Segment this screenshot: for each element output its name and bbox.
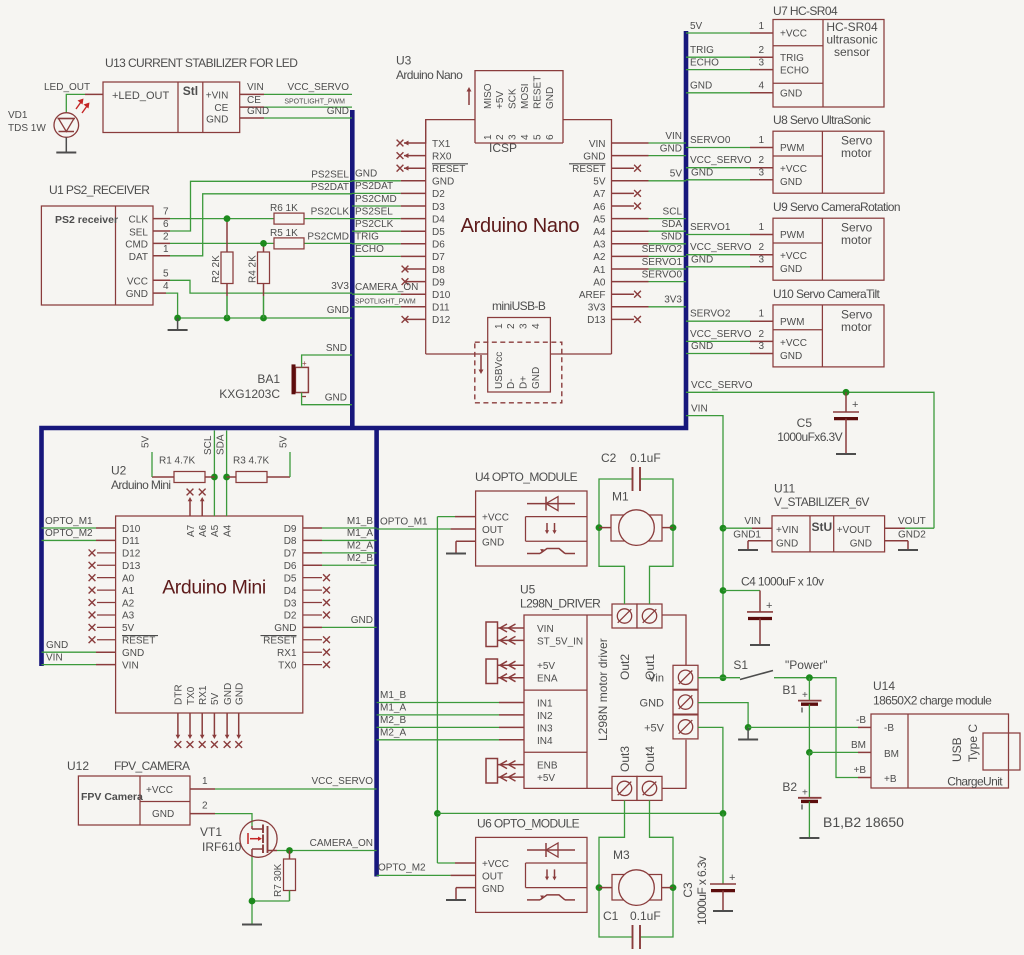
- svg-text:M1: M1: [612, 490, 629, 504]
- svg-text:3: 3: [758, 57, 764, 68]
- U3 pin names right: [569, 139, 606, 326]
- svg-text:D9: D9: [432, 277, 445, 288]
- svg-text:U9 Servo CameraRotation: U9 Servo CameraRotation: [773, 200, 900, 214]
- wire PS2SEL from U1 SEL pin6: [153, 170, 352, 232]
- svg-text:V_STABILIZER_6V: V_STABILIZER_6V: [774, 495, 869, 509]
- svg-text:4: 4: [531, 323, 542, 329]
- svg-text:1: 1: [202, 776, 208, 787]
- wire 5V stub right: [279, 435, 291, 477]
- svg-text:PS2CLK: PS2CLK: [355, 219, 394, 230]
- svg-text:SCL: SCL: [663, 206, 683, 217]
- svg-text:R4 2K: R4 2K: [248, 255, 259, 283]
- svg-text:StU: StU: [811, 520, 832, 534]
- U5 pin names: [537, 624, 583, 784]
- svg-text:+B: +B: [853, 765, 866, 776]
- svg-text:GND: GND: [691, 167, 713, 178]
- svg-text:M2_B: M2_B: [380, 715, 406, 726]
- U4 diode symbol: [527, 497, 575, 511]
- svg-text:6: 6: [163, 219, 169, 230]
- svg-text:U13 CURRENT STABILIZER FOR LE: U13 CURRENT STABILIZER FOR LED: [105, 56, 298, 70]
- IC U14 title: [873, 679, 992, 708]
- svg-text:D8: D8: [432, 265, 445, 276]
- svg-text:+: +: [766, 600, 772, 612]
- wire LED_OUT: [44, 82, 103, 113]
- wire OPTO_M1 to U2 D10: [42, 516, 116, 528]
- svg-text:+: +: [802, 690, 808, 701]
- wire M2_A from U2 D7: [303, 541, 377, 553]
- wire 5V stub left: [141, 435, 153, 477]
- svg-text:PS2 receiver: PS2 receiver: [55, 214, 118, 226]
- svg-text:IN1: IN1: [537, 699, 553, 710]
- svg-text:Vin: Vin: [648, 673, 664, 685]
- terminal +5V: [644, 715, 698, 739]
- ground below U1: [168, 318, 188, 330]
- IC U10 Servo motor: [773, 305, 884, 367]
- IC U11 title: [774, 482, 869, 510]
- svg-text:5V: 5V: [593, 177, 606, 188]
- IC U6 title: [477, 816, 580, 830]
- IC U14 18650X2 charge module: [871, 714, 1009, 789]
- svg-text:B1,B2 18650: B1,B2 18650: [823, 814, 904, 830]
- svg-text:BM: BM: [851, 740, 866, 751]
- U2 pin names left: [122, 524, 158, 672]
- wire GND from U3 right: [612, 143, 687, 155]
- svg-text:GND: GND: [46, 640, 68, 651]
- U3 unconnected pin RESET right: [612, 165, 641, 172]
- svg-text:D2: D2: [284, 611, 297, 622]
- svg-text:1000uF x 6.3v: 1000uF x 6.3v: [695, 856, 709, 925]
- svg-text:MOSI: MOSI: [520, 83, 531, 109]
- wire SERVO2 from U3: [612, 244, 687, 256]
- svg-text:C1: C1: [603, 909, 619, 923]
- svg-text:RESET: RESET: [122, 636, 155, 647]
- svg-text:D11: D11: [122, 536, 140, 547]
- capacitor C4: [723, 575, 824, 645]
- capacitor C1: [603, 909, 661, 949]
- LED VD1: [8, 99, 90, 138]
- svg-text:4: 4: [758, 81, 764, 92]
- svg-text:ST_5V_IN: ST_5V_IN: [537, 636, 583, 647]
- IC U4 OPTO_MODULE: [476, 491, 587, 566]
- svg-text:SERVO0: SERVO0: [690, 135, 731, 146]
- svg-text:M3: M3: [613, 848, 630, 862]
- resistor R7 30K: [273, 851, 296, 902]
- resistor R3 4.7K: [227, 456, 290, 483]
- svg-text:GND: GND: [126, 289, 148, 300]
- svg-text:D3: D3: [284, 598, 297, 609]
- svg-text:SERVO0: SERVO0: [642, 269, 683, 280]
- ground U6 GND pin: [446, 888, 476, 900]
- svg-text:+VCC: +VCC: [780, 338, 807, 349]
- svg-text:ICSP: ICSP: [489, 141, 517, 155]
- svg-text:2: 2: [758, 155, 764, 166]
- svg-text:3: 3: [758, 167, 764, 178]
- ground GND1 of U11: [733, 530, 772, 551]
- svg-text:VIN: VIN: [589, 139, 606, 150]
- U2 unconnected pins bottom: [175, 713, 243, 748]
- svg-text:C4 1000uF x 10v: C4 1000uF x 10v: [741, 575, 824, 589]
- svg-text:CE: CE: [247, 95, 261, 106]
- svg-text:M2_A: M2_A: [347, 541, 373, 552]
- svg-text:USBVcc: USBVcc: [494, 352, 505, 389]
- wire SND from BA1: [302, 343, 352, 367]
- svg-text:SND: SND: [326, 343, 347, 354]
- IC U2 Arduino Mini body: [116, 516, 303, 713]
- wire SPOTLIGHT_PWM from U13 CE: [240, 95, 352, 107]
- svg-text:Out2: Out2: [618, 654, 632, 680]
- wire VCC_SERVO from U12 pin1: [190, 776, 377, 789]
- ground below VD1: [56, 137, 76, 152]
- svg-text:A4: A4: [222, 524, 233, 537]
- svg-text:D12: D12: [122, 549, 141, 560]
- U3 unconnected pin AREF: [612, 291, 641, 298]
- svg-text:SDA: SDA: [661, 219, 682, 230]
- U2 unconnected pins top A7 A6: [187, 489, 206, 516]
- svg-text:VOUT: VOUT: [898, 516, 926, 527]
- svg-text:SPOTLIGHT_PWM: SPOTLIGHT_PWM: [284, 99, 345, 106]
- svg-text:USB: USB: [950, 737, 964, 762]
- svg-text:U4 OPTO_MODULE: U4 OPTO_MODULE: [475, 470, 578, 484]
- svg-text:R1 4.7K: R1 4.7K: [159, 456, 195, 467]
- wire +B stub: [853, 765, 871, 778]
- svg-text:FPV_CAMERA: FPV_CAMERA: [114, 759, 190, 773]
- wire SERVO1 from U3: [612, 257, 687, 269]
- svg-text:OPTO_M2: OPTO_M2: [378, 863, 426, 874]
- svg-text:D+: D+: [519, 376, 530, 389]
- svg-text:A3: A3: [593, 240, 606, 251]
- svg-text:RESET: RESET: [263, 636, 296, 647]
- svg-text:5V: 5V: [141, 435, 152, 448]
- bus frame around Arduino Nano: [42, 31, 687, 666]
- wire M1_A from U2 D8: [303, 528, 377, 540]
- svg-text:+5V: +5V: [537, 773, 555, 784]
- svg-text:GND: GND: [325, 393, 347, 404]
- svg-text:+LED_OUT: +LED_OUT: [112, 90, 169, 102]
- wire ECHO to U3: [352, 244, 426, 256]
- svg-text:2: 2: [758, 242, 764, 253]
- miniUSB-B connector U3: [488, 299, 551, 392]
- svg-text:+: +: [802, 788, 808, 799]
- U2 unconnected pins right D5-D2: [303, 574, 330, 618]
- svg-text:DTR: DTR: [174, 684, 185, 705]
- wire Power node: [774, 674, 858, 777]
- svg-text:+VCC: +VCC: [482, 859, 509, 870]
- svg-text:5V: 5V: [279, 435, 290, 448]
- svg-text:VT1: VT1: [200, 825, 222, 839]
- svg-text:ECHO: ECHO: [690, 57, 719, 68]
- svg-text:VIN: VIN: [46, 652, 63, 663]
- svg-text:3V3: 3V3: [664, 295, 682, 306]
- wire GND to U10 pin3: [686, 341, 773, 354]
- svg-text:SPOTLIGHT_PWM: SPOTLIGHT_PWM: [355, 299, 416, 306]
- wire VCC_SERVO from U13 VIN: [240, 82, 352, 94]
- svg-text:GND: GND: [531, 367, 542, 389]
- svg-text:VCC_SERVO: VCC_SERVO: [691, 380, 753, 391]
- svg-text:PS2CMD: PS2CMD: [355, 194, 397, 205]
- svg-text:motor: motor: [841, 146, 872, 160]
- U4 phototransistor symbol: [527, 549, 575, 554]
- svg-text:6: 6: [545, 134, 556, 140]
- svg-text:M2_A: M2_A: [380, 727, 406, 738]
- svg-text:D6: D6: [284, 561, 297, 572]
- svg-text:VIN: VIN: [744, 516, 761, 527]
- wire 3V3 from U1 VCC pin5: [153, 280, 352, 293]
- svg-text:A7: A7: [593, 189, 606, 200]
- svg-text:GND: GND: [235, 683, 246, 705]
- svg-text:GND: GND: [482, 538, 504, 549]
- svg-text:BM: BM: [884, 749, 899, 760]
- wire PS2CLK to U3: [352, 219, 426, 231]
- svg-text:M1_B: M1_B: [380, 690, 406, 701]
- svg-text:U14: U14: [873, 679, 895, 693]
- wire GND from U13: [240, 106, 352, 118]
- U3 unconnected pin D13: [612, 316, 641, 323]
- switch S1: [733, 658, 827, 680]
- ground below B2: [799, 837, 819, 839]
- svg-text:SDA: SDA: [215, 434, 226, 455]
- U3 unconnected pins TX1 RX0 RESET: [397, 140, 426, 172]
- svg-text:IRF610: IRF610: [202, 840, 242, 854]
- svg-text:PS2CLK: PS2CLK: [311, 207, 350, 218]
- svg-text:B1: B1: [782, 683, 797, 697]
- ground below VT1: [242, 924, 262, 926]
- svg-text:GND: GND: [355, 169, 377, 180]
- svg-text:CE: CE: [214, 103, 228, 114]
- connector plug VIN/ST_5V_IN: [486, 622, 524, 647]
- wire GND from driver terminal: [698, 703, 751, 731]
- battery B2: [782, 752, 821, 837]
- svg-text:A3: A3: [122, 611, 135, 622]
- wire GND rail: [174, 305, 352, 321]
- svg-text:motor: motor: [841, 320, 872, 334]
- svg-text:1: 1: [758, 135, 764, 146]
- svg-text:C3: C3: [681, 882, 695, 898]
- svg-text:SERVO2: SERVO2: [642, 244, 683, 255]
- svg-text:L298N_DRIVER: L298N_DRIVER: [520, 597, 601, 611]
- resistor R2 2K: [211, 215, 233, 318]
- svg-text:A1: A1: [593, 265, 606, 276]
- wire SDA from U3: [612, 219, 687, 231]
- svg-text:motor: motor: [841, 233, 872, 247]
- wire motor M3 loop: [596, 800, 677, 937]
- svg-text:DAT: DAT: [129, 252, 148, 263]
- svg-text:GND: GND: [327, 305, 349, 316]
- svg-text:GND: GND: [640, 698, 665, 710]
- IC U5 L298N_DRIVER body: [524, 615, 686, 788]
- svg-text:+VCC: +VCC: [780, 164, 807, 175]
- bus Arduino Mini right vertical: [374, 428, 379, 877]
- wire TRIG to U3: [352, 232, 426, 244]
- svg-text:A0: A0: [593, 277, 606, 288]
- svg-text:Out3: Out3: [618, 746, 632, 772]
- resistor R1 4.7K: [152, 456, 214, 483]
- svg-text:C5: C5: [797, 416, 813, 430]
- wire M1_A to U5 IN2: [377, 702, 524, 715]
- svg-text:GND: GND: [482, 884, 504, 895]
- svg-text:VIN: VIN: [691, 404, 708, 415]
- wire GND to U9 pin3: [686, 254, 773, 267]
- svg-text:TRIG: TRIG: [690, 45, 714, 56]
- svg-text:U6 OPTO_MODULE: U6 OPTO_MODULE: [477, 816, 580, 830]
- motor M1: [599, 490, 673, 546]
- connector plug +5V/ENA: [486, 659, 524, 684]
- svg-text:+VOUT: +VOUT: [837, 525, 871, 536]
- svg-text:OPTO_M1: OPTO_M1: [380, 517, 428, 528]
- svg-text:2: 2: [495, 134, 506, 140]
- wire SPOTLIGHT_PWM to U3 D11: [352, 299, 426, 307]
- svg-text:GND: GND: [690, 81, 712, 92]
- svg-text:GND: GND: [691, 254, 713, 265]
- svg-text:PS2SEL: PS2SEL: [311, 170, 349, 181]
- svg-text:3: 3: [758, 341, 764, 352]
- svg-text:VCC_SERVO: VCC_SERVO: [690, 242, 752, 253]
- svg-text:5V: 5V: [670, 169, 683, 180]
- svg-text:7: 7: [163, 207, 169, 218]
- svg-text:U10 Servo CameraTilt: U10 Servo CameraTilt: [773, 287, 881, 301]
- svg-text:GND: GND: [223, 683, 234, 705]
- svg-text:A7: A7: [186, 524, 197, 537]
- svg-text:+5V: +5V: [537, 661, 555, 672]
- wire SERVO0 to U8 pin1: [686, 135, 773, 148]
- svg-text:MISO: MISO: [483, 83, 494, 109]
- IC U7 title: [773, 4, 838, 18]
- wire SDA: [215, 431, 230, 517]
- svg-text:A1: A1: [122, 586, 135, 597]
- svg-text:SND: SND: [661, 232, 682, 243]
- svg-text:VCC: VCC: [127, 277, 148, 288]
- resistor R5 1K: [270, 228, 304, 249]
- wire M2_A to U5 IN4: [377, 727, 524, 740]
- svg-text:GND: GND: [122, 648, 144, 659]
- USB Type C connector: [983, 733, 1020, 770]
- svg-text:GND: GND: [152, 809, 174, 820]
- svg-text:PS2SEL: PS2SEL: [355, 206, 393, 217]
- wire CAMERA_ON from VT1: [277, 838, 377, 854]
- wire GND from BA1: [302, 393, 352, 405]
- wire SERVO0 from U3: [612, 269, 687, 281]
- IC U9 Servo motor: [773, 218, 884, 280]
- IC U4 title: [475, 470, 578, 484]
- svg-text:0.1uF: 0.1uF: [630, 451, 661, 465]
- U2 unconnected pins right RESET RX1 TX0: [303, 636, 330, 668]
- svg-text:RESET: RESET: [572, 164, 605, 175]
- svg-text:C2: C2: [601, 451, 617, 465]
- wire VIN rail: [686, 404, 726, 682]
- buzzer BA1 KXG1203C: [219, 359, 308, 401]
- svg-text:GND: GND: [850, 539, 872, 550]
- svg-text:A6: A6: [198, 524, 209, 537]
- svg-text:CAMERA_ON: CAMERA_ON: [355, 282, 418, 293]
- svg-text:PWM: PWM: [780, 317, 804, 328]
- svg-text:U5: U5: [520, 583, 536, 597]
- svg-text:+VIN: +VIN: [776, 525, 799, 536]
- svg-text:D5: D5: [284, 573, 297, 584]
- svg-text:OUT: OUT: [482, 871, 503, 882]
- svg-text:GND: GND: [691, 341, 713, 352]
- svg-text:2: 2: [506, 323, 517, 329]
- svg-text:U1 PS2_RECEIVER: U1 PS2_RECEIVER: [49, 183, 150, 197]
- wire OPTO_M2 to U2 D11: [42, 528, 116, 540]
- U6 diode symbol: [527, 843, 575, 857]
- svg-text:OPTO_M1: OPTO_M1: [45, 516, 93, 527]
- wire GND to U2: [42, 640, 116, 652]
- svg-text:5: 5: [532, 134, 543, 140]
- IC U13 CURRENT STABILIZER FOR LED: [103, 82, 240, 133]
- svg-text:KXG1203C: KXG1203C: [219, 387, 280, 401]
- wire GND to U8 pin3: [686, 167, 773, 180]
- terminal Out2: [612, 604, 637, 680]
- svg-text:VIN: VIN: [122, 660, 139, 671]
- wire TRIG to U7 pin2: [686, 45, 773, 57]
- wire SERVO1 to U9 pin1: [686, 222, 773, 235]
- svg-text:D13: D13: [122, 561, 141, 572]
- svg-text:RESET: RESET: [432, 164, 465, 175]
- wire PS2CMD from U1 CMD pin2: [153, 231, 352, 243]
- svg-text:VCC_SERVO: VCC_SERVO: [287, 82, 349, 93]
- U2 unconnected pins left: [89, 549, 116, 643]
- terminal Out4: [637, 746, 662, 801]
- svg-text:+VCC: +VCC: [780, 29, 807, 40]
- svg-text:M1_B: M1_B: [347, 516, 373, 527]
- svg-text:D8: D8: [284, 536, 297, 547]
- svg-text:3: 3: [519, 323, 530, 329]
- wire Vin terminal to S1: [698, 677, 740, 679]
- IC U6 OPTO_MODULE: [476, 837, 587, 912]
- svg-text:+VCC: +VCC: [482, 513, 509, 524]
- svg-text:RX1: RX1: [198, 685, 209, 705]
- svg-text:Arduino Mini: Arduino Mini: [111, 478, 171, 492]
- svg-text:SCK: SCK: [508, 88, 519, 109]
- wire 5V from U3: [612, 169, 687, 181]
- svg-text:GND: GND: [780, 177, 802, 188]
- capacitor C2: [601, 451, 661, 491]
- wire PS2CLK from U1 CLK pin7: [153, 207, 352, 219]
- svg-text:VD1: VD1: [8, 110, 28, 121]
- svg-text:U11: U11: [774, 482, 795, 496]
- ICSP header U3: [483, 76, 556, 155]
- svg-text:D9: D9: [284, 524, 297, 535]
- U4 led arrows: [545, 523, 557, 534]
- ground U4 GND pin: [446, 541, 476, 553]
- svg-text:GND: GND: [780, 264, 802, 275]
- wire M1_B from U2 D9: [303, 516, 377, 528]
- ground below C4: [750, 644, 770, 646]
- pin numbers U1: [163, 207, 169, 293]
- svg-text:1: 1: [494, 323, 505, 329]
- svg-text:SCL: SCL: [203, 435, 214, 455]
- wire PS2DAT to U3: [352, 181, 426, 193]
- svg-text:A4: A4: [593, 227, 606, 238]
- svg-text:5V: 5V: [690, 21, 703, 32]
- IC U1 PS2_RECEIVER: [41, 206, 153, 305]
- svg-text:+: +: [729, 872, 735, 884]
- U3 pin names left: [432, 139, 468, 326]
- svg-text:U8 Servo UltraSonic: U8 Servo UltraSonic: [773, 113, 871, 127]
- svg-text:PS2DAT: PS2DAT: [355, 181, 393, 192]
- svg-text:18650X2 charge module: 18650X2 charge module: [873, 694, 992, 708]
- svg-text:VCC_SERVO: VCC_SERVO: [690, 155, 752, 166]
- wire PS2DAT from U1 DAT pin1: [153, 182, 352, 256]
- svg-text:1000uFx6.3V: 1000uFx6.3V: [777, 430, 842, 444]
- wire SCL: [203, 431, 218, 517]
- U3 unconnected pins D8 D9: [402, 266, 426, 285]
- svg-text:R6 1K: R6 1K: [270, 203, 298, 214]
- wire VIN to U2: [42, 652, 116, 664]
- svg-text:Arduino Nano: Arduino Nano: [396, 68, 463, 82]
- svg-text:R2 2K: R2 2K: [211, 255, 222, 283]
- svg-text:1: 1: [758, 309, 764, 320]
- wire M2_B to U5 IN3: [377, 715, 524, 728]
